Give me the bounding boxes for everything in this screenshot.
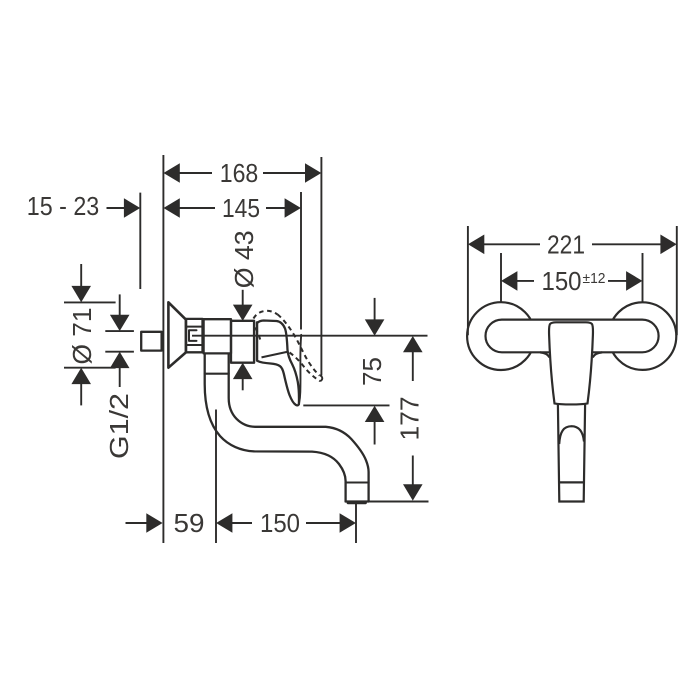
svg-text:Ø 43: Ø 43 [231, 230, 259, 288]
svg-text:221: 221 [547, 231, 585, 259]
svg-text:75: 75 [359, 357, 387, 386]
svg-text:168: 168 [220, 160, 259, 188]
svg-text:145: 145 [222, 195, 260, 223]
svg-text:±12: ±12 [583, 271, 606, 287]
svg-text:59: 59 [174, 510, 205, 538]
svg-text:15 - 23: 15 - 23 [27, 193, 100, 221]
svg-text:Ø 71: Ø 71 [69, 308, 97, 365]
svg-text:150: 150 [260, 510, 300, 538]
svg-text:177: 177 [396, 397, 424, 441]
svg-text:150: 150 [542, 268, 582, 296]
svg-text:G1/2: G1/2 [106, 393, 134, 459]
